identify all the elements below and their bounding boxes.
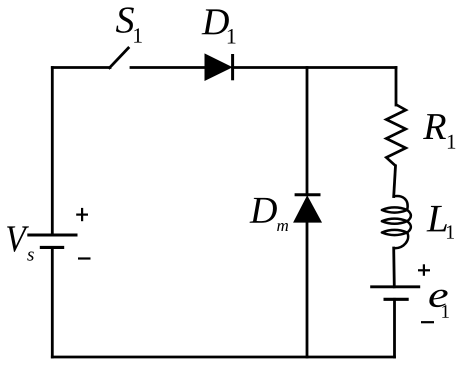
wire switch to D1 — [131, 66, 206, 69]
diode D1 — [205, 54, 233, 80]
wire middle branch upper (node to Dm) — [306, 68, 309, 195]
wire left vertical upper — [51, 68, 54, 236]
label L1 — [427, 206, 447, 232]
resistor R1 — [386, 105, 406, 166]
label R1 — [423, 114, 446, 139]
label S1 — [116, 7, 134, 33]
wire left vertical lower — [51, 247, 54, 357]
label - (Vs negative) — [78, 257, 91, 259]
label - (e1 negative) — [421, 321, 434, 323]
wire right vertical upper — [395, 68, 398, 106]
wire D1 cathode to top-right corner — [233, 66, 396, 69]
wire e1 battery to bottom-right corner — [393, 299, 396, 357]
wire middle branch lower (Dm to bottom) — [306, 222, 309, 357]
label Vs — [7, 226, 29, 251]
label Dm — [250, 198, 277, 223]
label D1 — [202, 9, 229, 34]
switch S1 blade — [110, 48, 129, 68]
voltage source Vs (battery plates) — [27, 235, 77, 247]
wire top-left horizontal — [52, 66, 110, 69]
wire inductor to e1 battery — [392, 248, 395, 287]
diode Dm — [294, 195, 321, 222]
label + (e1 positive) — [418, 264, 430, 276]
wire resistor to inductor — [394, 166, 396, 197]
source e1 (battery plates) — [370, 287, 420, 300]
inductor L1 — [382, 196, 411, 248]
label + (Vs positive) — [76, 208, 88, 221]
wire bottom horizontal — [52, 356, 394, 359]
label e1 — [429, 290, 447, 308]
